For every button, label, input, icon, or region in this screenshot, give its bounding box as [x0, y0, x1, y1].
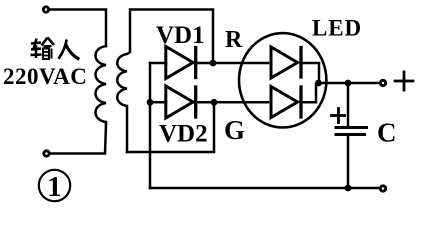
transformer secondary winding	[117, 12, 130, 152]
wire secondary bottom to node G riser	[127, 104, 214, 152]
svg-text:1: 1	[47, 171, 62, 203]
LED package circle	[239, 33, 326, 127]
diode VD2	[166, 86, 196, 118]
svg-text:C: C	[377, 118, 397, 148]
terminal top-left	[43, 7, 48, 12]
svg-text:LED: LED	[312, 16, 362, 41]
node R junction dot	[210, 60, 217, 67]
terminal output minus	[380, 186, 385, 191]
LED green chip	[271, 87, 301, 118]
wire node G row	[195, 101, 268, 104]
capacitor C lead top	[347, 83, 350, 126]
node G junction dot	[211, 99, 218, 106]
figure number circled 1	[39, 170, 70, 203]
入 char	[59, 40, 80, 60]
wire common anode vertical	[149, 63, 152, 188]
terminal output +	[380, 80, 385, 85]
output + sign	[395, 72, 413, 90]
capacitor C plates	[336, 126, 367, 129]
wire secondary top to node R riser	[130, 10, 213, 62]
wire bottom rail	[150, 187, 380, 190]
svg-text:G: G	[224, 115, 245, 145]
wire node R row	[195, 62, 268, 65]
label 输入 (drawn glyphs)	[31, 38, 80, 60]
wire VD1 anode	[150, 62, 166, 65]
wire VD2 anode	[150, 101, 166, 104]
输 char	[31, 38, 55, 60]
capacitor C lead bottom	[347, 136, 350, 188]
svg-text:VD1: VD1	[156, 22, 205, 49]
svg-text:R: R	[225, 27, 243, 53]
wire red chip cathode to common	[301, 63, 319, 83]
node VD2 anode junction dot	[147, 99, 154, 106]
wire top-left to primary	[50, 10, 107, 47]
transformer primary winding	[96, 46, 107, 124]
wire primary bottom to terminal	[50, 124, 106, 154]
LED red chip	[271, 47, 301, 78]
junction dot capacitor top	[345, 80, 352, 87]
diode VD1	[166, 47, 196, 79]
terminal bottom-left	[44, 151, 49, 156]
capacitor polarity + sign	[332, 109, 345, 123]
svg-text:220VAC: 220VAC	[3, 64, 87, 89]
junction dot capacitor bottom	[345, 185, 352, 192]
wire LED output to + terminal	[319, 82, 380, 85]
common cathode junction dot	[315, 80, 322, 87]
wire green chip cathode to common	[301, 84, 316, 102]
svg-text:VD2: VD2	[159, 121, 208, 148]
